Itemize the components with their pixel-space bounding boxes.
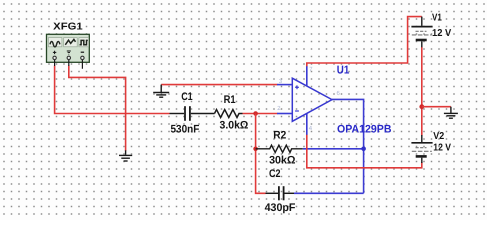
wire: V+ supply to V1	[307, 17, 422, 67]
op-amp V- stub pin 4	[306, 113, 308, 135]
resistor R2	[256, 145, 303, 152]
op-amp + input marking	[295, 85, 299, 89]
svg-text:C2: C2	[269, 168, 281, 180]
svg-text:12 V: 12 V	[433, 142, 451, 153]
junction dot (R2 node)	[253, 147, 258, 152]
svg-text:XFG1: XFG1	[53, 21, 83, 32]
wire: R1 to inverting input	[243, 113, 278, 115]
svg-text:R2: R2	[273, 130, 286, 142]
wire: V1 minus to V2 plus	[421, 47, 423, 136]
wire: V- supply to V2	[307, 135, 422, 168]
op-amp V+ stub pin 7	[306, 66, 308, 86]
svg-text:C1: C1	[181, 91, 193, 103]
op-amp input stub pin 2	[277, 113, 292, 115]
function generator XFG1	[47, 34, 90, 69]
wire: supply midpoint to ground	[422, 106, 451, 108]
capacitor C2	[266, 186, 295, 200]
wire: feedback node down to R2 and C2	[256, 114, 266, 194]
wire: ground to op-amp + input	[161, 84, 277, 86]
svg-text:30kΩ: 30kΩ	[269, 155, 296, 167]
battery V1	[411, 17, 432, 48]
ground (below XFG1 com wire)	[119, 150, 132, 161]
wire: XFG1 + terminal to C1 (signal net)	[55, 66, 170, 114]
battery V2	[411, 135, 432, 163]
resistor R1	[215, 110, 243, 118]
ground (non-inverting input)	[153, 85, 169, 98]
wire: op-amp output down (blue net)	[332, 99, 364, 193]
junction dot (R1 / feedback node)	[253, 111, 258, 116]
op-amp U1 triangle	[292, 78, 332, 121]
svg-text:12 V: 12 V	[432, 28, 452, 39]
svg-text:V2: V2	[433, 131, 444, 142]
svg-text:OPA129PB: OPA129PB	[337, 124, 392, 136]
svg-text:U1: U1	[337, 64, 350, 76]
wire: C2 right to output (blue net)	[294, 192, 364, 194]
capacitor C1	[170, 106, 215, 121]
wire: XFG1 com terminal to ground	[69, 66, 126, 151]
junction dot (output / feedback, blue)	[361, 147, 366, 152]
junction dot (supply midpoint)	[419, 104, 424, 109]
svg-text:R1: R1	[224, 94, 236, 106]
op-amp - input marking	[295, 110, 299, 112]
svg-text:3.0kΩ: 3.0kΩ	[220, 120, 249, 132]
wire: R2 right to output (blue net)	[303, 148, 364, 150]
op-amp input stub pin 3	[277, 84, 292, 86]
svg-text:430pF: 430pF	[265, 202, 296, 214]
ground (supply midpoint)	[444, 107, 458, 119]
svg-text:V1: V1	[432, 13, 442, 24]
svg-text:530nF: 530nF	[171, 124, 200, 136]
